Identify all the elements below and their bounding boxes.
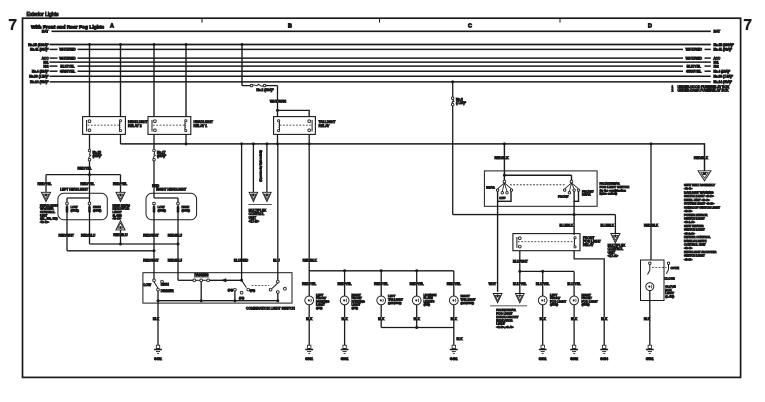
svg-text:WHT/RED: WHT/RED [686,48,703,52]
svg-text:BLU/RED: BLU/RED [234,259,249,263]
svg-text:RED/YEL: RED/YEL [338,282,352,286]
svg-text:<2-B>,<3-A>: <2-B>,<3-A> [496,325,513,329]
svg-text:BLU/BLK: BLU/BLK [600,223,614,227]
svg-text:(55W): (55W) [158,208,166,212]
svg-text:RED/BLU: RED/BLU [168,234,183,238]
svg-text:COMBINATION LIGHT SWITCH: COMBINATION LIGHT SWITCH [246,307,295,311]
svg-text:(55W): (55W) [550,303,558,307]
svg-text:BAT: BAT [714,30,722,34]
svg-text:(56): (56) [250,289,255,293]
svg-text:D: D [648,23,652,29]
svg-text:OFF: OFF [499,196,505,200]
svg-text:B: B [288,23,292,29]
svg-text:BLK/YEL: BLK/YEL [687,64,701,68]
svg-text:G501: G501 [646,357,654,361]
svg-text:LOW: LOW [144,283,151,287]
svg-text:RED/BLK: RED/BLK [494,156,509,160]
svg-text:RELAY 1: RELAY 1 [194,124,208,128]
svg-text:No.14 (40A)*: No.14 (40A)* [30,80,49,84]
svg-text:BLK: BLK [341,317,348,321]
svg-text:GRN/YEL: GRN/YEL [686,69,701,73]
svg-text:RIGHT HEADLIGHT: RIGHT HEADLIGHT [156,188,186,192]
svg-text:WHT: WHT [489,282,497,286]
svg-text:BLU: BLU [273,259,280,263]
svg-text:RED/YEL: RED/YEL [113,182,127,186]
svg-text:OPEN: OPEN [671,266,680,270]
svg-text:G401: G401 [450,357,458,361]
svg-text:<D-D>: <D-D> [40,220,49,224]
svg-text:(21W/5W): (21W/5W) [461,301,475,305]
svg-text:RED/BLU: RED/BLU [113,233,128,237]
svg-text:BLK: BLK [414,317,421,321]
svg-text:<17-A>: <17-A> [608,254,619,258]
svg-text:BLU/YEL: BLU/YEL [513,282,527,286]
svg-text:BLK: BLK [306,317,313,321]
svg-text:LEFT HEADLIGHT: LEFT HEADLIGHT [60,188,88,192]
svg-text:BLU/YEL: BLU/YEL [567,282,581,286]
svg-text:BLK: BLK [601,317,608,321]
svg-text:RED/WHT: RED/WHT [59,234,74,238]
svg-text:RED/YEL: RED/YEL [77,167,91,171]
svg-text:RED/BLK: RED/BLK [694,156,709,160]
svg-text:BLU/BLK: BLU/BLK [559,223,573,227]
svg-text:BLK/YEL: BLK/YEL [60,64,74,68]
svg-text:(30): (30) [228,288,233,292]
svg-text:PASSING: PASSING [195,273,209,277]
svg-text:(58): (58) [239,296,244,300]
svg-text:BLK: BLK [540,317,547,321]
svg-text:No.2 (30A)*: No.2 (30A)* [256,88,274,92]
svg-text:RED/YEL: RED/YEL [447,282,461,286]
svg-text:<B-D>: <B-D> [684,257,693,261]
svg-text:Exterior Lights: Exterior Lights [27,12,59,18]
svg-text:<17-B>: <17-B> [249,219,260,223]
svg-text:2: 2 [672,89,674,93]
svg-text:<3-C>: <3-C> [113,217,122,221]
svg-text:No.14 (40A)*: No.14 (40A)* [714,80,733,84]
svg-text:RELAY: RELAY [319,124,331,128]
svg-text:RED/BLK: RED/BLK [644,223,659,227]
svg-text:WHT/RED: WHT/RED [59,56,76,60]
svg-text:RELAY 2: RELAY 2 [128,124,142,128]
svg-text:UNDER-DASH FUSE/RELAY BOX: UNDER-DASH FUSE/RELAY BOX [678,89,730,93]
svg-text:RED/YEL: RED/YEL [38,182,52,186]
svg-text:G302: G302 [570,357,578,361]
svg-text:WHT/RED: WHT/RED [686,56,703,60]
svg-text:BLK: BLK [378,317,385,321]
svg-text:DIMMER: DIMMER [161,289,175,293]
svg-text:BLU/WHT: BLU/WHT [513,260,528,264]
svg-text:WHT/RED: WHT/RED [59,48,76,52]
svg-text:RED/YEL: RED/YEL [410,282,424,286]
svg-text:(Operates by light switch): (Operates by light switch) [259,150,263,182]
svg-text:G301: G301 [539,357,547,361]
svg-text:C: C [468,23,472,29]
svg-text:RELAY: RELAY [583,243,594,247]
svg-text:No.15 (100A)*: No.15 (100A)* [714,43,735,47]
svg-text:(15A)*: (15A)* [93,154,103,158]
svg-text:RED/BLU: RED/BLU [168,259,183,263]
svg-text:IG2: IG2 [43,64,48,68]
svg-text:RED/YEL: RED/YEL [374,282,388,286]
svg-text:No.15 (100A)*: No.15 (100A)* [28,43,49,47]
svg-text:HIGH: HIGH [161,282,170,286]
svg-text:GRN/YEL: GRN/YEL [60,69,75,73]
svg-text:No.30 (7.5A)*: No.30 (7.5A)* [29,75,49,79]
svg-text:RED/WHT: RED/WHT [143,259,158,263]
svg-text:(15A)*: (15A)* [157,154,167,158]
svg-text:RED/YEL: RED/YEL [302,282,316,286]
svg-text:FRONT: FRONT [558,195,569,199]
svg-text:CLOSE: CLOSE [665,277,675,281]
svg-text:RED/WHT: RED/WHT [143,234,158,238]
svg-text:REAR: REAR [486,185,495,189]
svg-text:REAR: REAR [582,193,591,197]
svg-text:No.41 (30A)*: No.41 (30A)* [714,48,733,52]
svg-text:A: A [110,23,114,29]
svg-text:BLU/YEL: BLU/YEL [536,282,550,286]
svg-text:G404: G404 [600,357,608,361]
svg-text:(55W): (55W) [71,208,79,212]
svg-text:(60W): (60W) [182,208,190,212]
svg-text:(5W): (5W) [316,306,323,310]
svg-text:BAT: BAT [42,30,50,34]
svg-text:lights switch): lights switch) [600,192,618,196]
svg-text:No.30 (7.5A)*: No.30 (7.5A)* [714,75,734,79]
svg-text:BLK: BLK [451,317,458,321]
svg-text:7: 7 [744,17,752,34]
svg-text:G301: G301 [341,357,349,361]
svg-text:BLK: BLK [571,317,578,321]
svg-text:BLK: BLK [153,317,160,321]
svg-text:(5W): (5W) [352,306,359,310]
svg-text:RED/BLK: RED/BLK [303,259,318,263]
svg-text:(21W/5W): (21W/5W) [388,301,402,305]
svg-text:No.4 (10A)*: No.4 (10A)* [714,70,731,74]
svg-text:No.41 (30A)*: No.41 (30A)* [30,48,49,52]
svg-text:(1.4W): (1.4W) [665,295,674,299]
svg-text:No.4 (10A)*: No.4 (10A)* [32,70,49,74]
svg-text:RED/YEL: RED/YEL [80,182,94,186]
svg-text:WHT/GRN: WHT/GRN [270,99,287,103]
svg-text:RED/BLU: RED/BLU [81,234,96,238]
svg-text:BLK: BLK [457,337,464,341]
svg-text:(60W): (60W) [93,208,101,212]
svg-text:(5W): (5W) [424,303,431,307]
svg-text:(7.5A)*: (7.5A)* [456,101,467,105]
svg-text:G301: G301 [305,357,313,361]
svg-text:(55W): (55W) [582,303,590,307]
svg-text:IG2: IG2 [714,64,719,68]
svg-text:G401: G401 [154,357,162,361]
svg-text:BLK: BLK [644,317,651,321]
svg-text:7: 7 [9,17,17,34]
